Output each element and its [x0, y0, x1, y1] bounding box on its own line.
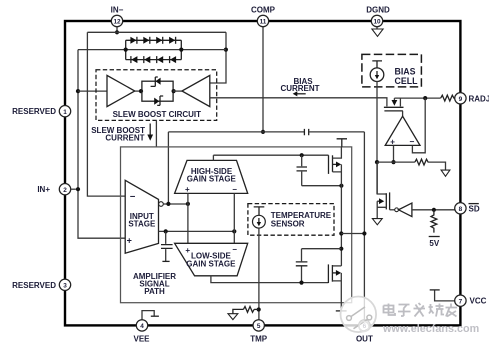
- capacitor M2 gate: [296, 249, 308, 283]
- junction diode right node: [179, 48, 183, 52]
- svg-text:PATH: PATH: [144, 287, 165, 296]
- wire slew boost output to signal path: [155, 120, 157, 146]
- low-side gain stage: [175, 243, 248, 275]
- junction TMP node: [257, 307, 261, 311]
- VCC tap bar: [430, 289, 440, 291]
- capacitor comp series: [304, 129, 308, 135]
- wire IN- top stub: [116, 27, 118, 33]
- wire COMP vertical: [262, 27, 264, 132]
- watermark logo circle: [341, 297, 377, 333]
- junction RADJ feedback: [423, 96, 427, 100]
- diode D5 bottom: [131, 56, 138, 63]
- junction diode left node: [124, 48, 128, 52]
- svg-text:RESERVED: RESERVED: [12, 107, 56, 116]
- ground DGND symbol: [372, 27, 383, 37]
- svg-text:IN+: IN+: [37, 185, 50, 194]
- svg-text:GAIN STAGE: GAIN STAGE: [187, 175, 237, 184]
- diode D4 top: [169, 37, 176, 44]
- junction slew left node: [139, 89, 143, 93]
- junction lower cap tap: [164, 229, 168, 233]
- pin 1 RESERVED: [12, 106, 71, 117]
- outer boundary box: [65, 21, 460, 325]
- junction op-amp plus node: [391, 160, 395, 164]
- svg-text:OUT: OUT: [356, 335, 373, 344]
- high-side gain stage: [175, 160, 248, 193]
- svg-text:−: −: [232, 185, 237, 194]
- buffer A2: [182, 75, 210, 106]
- svg-text:3: 3: [63, 282, 67, 289]
- pin 5 TMP: [250, 320, 268, 344]
- bias cell supply bar: [372, 61, 382, 68]
- svg-text:7: 7: [459, 298, 463, 305]
- wire comp riser to input stage output: [167, 132, 169, 204]
- wire high-side top stub: [212, 155, 214, 160]
- annotation bias current: [280, 77, 319, 96]
- junction OUT line: [362, 231, 366, 235]
- svg-text:5V: 5V: [429, 239, 439, 248]
- svg-text:SD: SD: [469, 205, 480, 214]
- svg-text:CURRENT: CURRENT: [105, 134, 144, 143]
- svg-text:GAIN STAGE: GAIN STAGE: [186, 259, 236, 268]
- svg-text:1: 1: [63, 109, 67, 116]
- transistor M3 bias PMOS: [384, 98, 404, 116]
- svg-text:9: 9: [459, 96, 463, 103]
- svg-text:−: −: [410, 137, 415, 147]
- transistor M4 shutdown FET: [377, 162, 389, 218]
- svg-text:TMP: TMP: [250, 335, 268, 344]
- svg-text:10: 10: [373, 19, 381, 26]
- input stage U1: [125, 180, 158, 253]
- current source bias cell: [370, 68, 384, 82]
- svg-text:2: 2: [63, 187, 67, 194]
- resistor SD pull: [431, 210, 437, 233]
- wire reference resistor row: [377, 161, 415, 163]
- svg-text:SLEW BOOST CIRCUIT: SLEW BOOST CIRCUIT: [113, 110, 202, 119]
- svg-text:COMP: COMP: [251, 5, 276, 14]
- temp sensor supply bar: [254, 207, 265, 215]
- svg-text:CURRENT: CURRENT: [280, 84, 319, 93]
- svg-text:RESERVED: RESERVED: [12, 281, 56, 290]
- junction diode rail right end: [224, 48, 228, 52]
- annotation slew boost current: [91, 124, 153, 143]
- diode D6 bottom: [144, 56, 151, 63]
- wire resistor to ground: [428, 162, 446, 170]
- svg-text:12: 12: [113, 19, 121, 26]
- svg-text:+: +: [185, 185, 190, 194]
- svg-text:−: −: [130, 192, 136, 203]
- junction COMP node: [261, 130, 265, 134]
- svg-text:8: 8: [459, 206, 463, 213]
- wire op-amp plus input: [393, 146, 395, 163]
- zener clamp top (pointing left): [151, 77, 161, 86]
- junction comp riser on output: [166, 202, 170, 206]
- antiparallel diode network loop: [126, 40, 182, 59]
- svg-text:www.elecfans.com: www.elecfans.com: [382, 323, 479, 335]
- ground shutdown FET: [372, 219, 382, 225]
- pin 8 SD: [455, 203, 480, 214]
- junction slew right node: [172, 89, 176, 93]
- diode D1 top: [130, 37, 137, 44]
- VEE tap wire pin4: [142, 311, 154, 320]
- svg-text:IN−: IN−: [111, 5, 124, 14]
- pin 2 IN+: [37, 184, 76, 195]
- junction SD resistor tap: [432, 208, 436, 212]
- resistor TMP to ground: [233, 307, 259, 314]
- svg-text:−: −: [232, 245, 237, 254]
- diode D7 bottom: [157, 56, 164, 63]
- pin 4 VEE: [133, 320, 150, 344]
- junction minus stub on lower output: [232, 229, 236, 233]
- amplifier signal path box: [121, 147, 352, 303]
- wire RADJ segment: [394, 97, 440, 99]
- ground bias reference: [441, 170, 450, 176]
- pin 6 OUT: [356, 320, 373, 344]
- pin 7 VCC: [455, 295, 487, 306]
- zener clamp bottom (pointing right): [154, 96, 163, 105]
- junction M1 source node: [339, 184, 343, 188]
- diode D3 top: [156, 37, 163, 44]
- resistor RADJ: [441, 95, 455, 101]
- temperature sensor dashed box: [248, 204, 334, 236]
- pin 10 DGND: [366, 5, 390, 26]
- diode D8 bottom: [170, 56, 177, 63]
- svg-text:VCC: VCC: [470, 297, 487, 306]
- junction top cap tap: [300, 153, 304, 157]
- junction IN+ pin node: [76, 187, 80, 191]
- svg-text:11: 11: [260, 19, 267, 26]
- wire low-side output: [211, 276, 329, 283]
- wire diode rail: [78, 49, 226, 51]
- pin 9 RADJ: [455, 93, 489, 104]
- junction buffer input node: [76, 89, 80, 93]
- svg-text:5: 5: [257, 323, 261, 330]
- slew boost circuit dashed box: [96, 70, 217, 121]
- label amplifier signal path: [133, 272, 176, 296]
- wire IN- vertical to input stage minus: [87, 32, 125, 196]
- transistor M2 (bottom output FET): [328, 264, 341, 311]
- wire M1 source link: [302, 185, 342, 187]
- junction pin12 wire: [115, 30, 119, 34]
- input stage output bubble: [159, 202, 164, 207]
- wire gate drive top (high-side to M1): [213, 154, 328, 156]
- svg-text:+: +: [390, 138, 395, 147]
- svg-text:+: +: [185, 246, 190, 255]
- wire noninverted output: [159, 230, 236, 232]
- ground TMP: [228, 314, 238, 320]
- pin 3 RESERVED: [12, 279, 71, 290]
- svg-text:4: 4: [140, 323, 144, 330]
- wire right riser to buffer input: [210, 32, 226, 83]
- wire bias current (buffer to pmos): [210, 98, 387, 107]
- junction plus stub on output: [186, 202, 190, 206]
- 5V tap bar: [429, 236, 440, 238]
- svg-text:+: +: [127, 236, 132, 246]
- capacitor lower output to gnd: [161, 231, 173, 261]
- svg-text:STAGE: STAGE: [128, 220, 156, 229]
- capacitor M1 gate: [297, 155, 308, 186]
- VCC tap on signal path (T bar): [337, 139, 347, 147]
- wire A1 output: [135, 90, 142, 92]
- wire compensation horizontal left: [168, 131, 304, 133]
- wire OUT link: [341, 233, 364, 235]
- VEE tap M2 source (T bar): [336, 310, 347, 312]
- svg-text:RADJ: RADJ: [469, 95, 489, 104]
- wire M2 gate-drain cap link: [302, 248, 342, 250]
- buffer A1: [107, 75, 135, 106]
- svg-text:DGND: DGND: [366, 5, 390, 14]
- pin 12 IN-: [111, 5, 124, 26]
- diode D2 top: [143, 37, 150, 44]
- junction M2 gate node: [299, 281, 303, 285]
- wire bias cell output vertical: [376, 81, 378, 194]
- pin 11 COMP: [251, 5, 276, 26]
- inverter U3 shutdown: [390, 203, 412, 217]
- wire A2 input: [173, 90, 182, 92]
- transistor M1 (top output FET): [329, 147, 342, 186]
- svg-text:SENSOR: SENSOR: [271, 220, 305, 229]
- wire temp sensor output: [258, 228, 260, 320]
- wire IN+ vertical: [78, 50, 125, 239]
- svg-text:CELL: CELL: [395, 76, 419, 86]
- slew clamp inner rectangle: [142, 81, 173, 101]
- resistor bias reference: [415, 159, 428, 165]
- wire high-side minus stub down to low-side: [233, 193, 235, 243]
- watermark chinese text: [384, 303, 458, 317]
- junction bias reference node: [375, 160, 379, 164]
- wire compensation horizontal right: [309, 131, 364, 133]
- VCC tap wire pin7: [435, 290, 455, 301]
- wire inverted output: [163, 203, 188, 205]
- wire buffer input: [78, 90, 107, 92]
- wire SD input: [412, 209, 455, 211]
- current source temp sensor: [253, 215, 266, 228]
- svg-text:VEE: VEE: [133, 335, 150, 344]
- VEE tap bar: [151, 315, 159, 317]
- junction M2 drain node: [339, 247, 343, 251]
- wire high-side plus stub down to low-side: [187, 193, 189, 243]
- wire OUT vertical line: [363, 132, 365, 320]
- junction OUT link left: [339, 231, 343, 235]
- wire op-amp minus feedback: [412, 98, 425, 153]
- wire IN- horizontal: [87, 31, 226, 33]
- op-amp U2 error amplifier: [385, 116, 420, 146]
- wire M1 source down chain: [340, 186, 342, 266]
- bias cell dashed box: [362, 54, 422, 87]
